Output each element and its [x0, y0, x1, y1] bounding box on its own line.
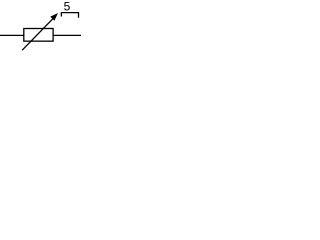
- svg-text:5: 5: [64, 0, 71, 13]
